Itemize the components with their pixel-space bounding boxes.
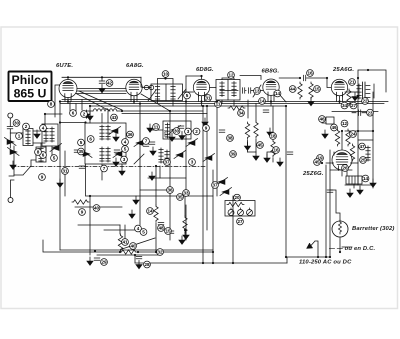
ground g10 — [147, 124, 153, 132]
wire x330 — [329, 150, 331, 257]
wire right h140 — [358, 139, 373, 141]
converter coil box L3 — [85, 123, 126, 164]
capacitor C5 — [114, 150, 120, 152]
node 9 callout — [39, 174, 46, 181]
junction j36 — [202, 262, 204, 264]
junction j3 — [59, 100, 61, 102]
node 30 callout — [13, 120, 20, 127]
node 27 callout — [350, 102, 357, 109]
wire y255 step — [134, 255, 136, 263]
wire diag down — [122, 238, 155, 249]
junction j7 — [200, 100, 202, 102]
wire osc bus y111b — [117, 110, 203, 112]
node 36 callout — [127, 131, 134, 138]
svg-text:31: 31 — [62, 169, 68, 174]
node 38 callout — [227, 135, 234, 142]
svg-text:4: 4 — [42, 126, 45, 131]
wire osc bus y113 — [122, 113, 207, 115]
svg-text:15: 15 — [165, 229, 171, 234]
wire bottom bus y263 — [135, 262, 287, 264]
svg-text:39: 39 — [230, 152, 236, 157]
node 41 callout — [122, 239, 129, 246]
wire U4 pins — [268, 95, 274, 106]
node 42 callout — [106, 80, 113, 87]
wire x207 — [206, 106, 208, 230]
trimmer arrow F5 — [203, 154, 215, 162]
node 14 callout — [362, 175, 369, 182]
ground g3 — [87, 112, 93, 120]
ground g27 — [129, 210, 135, 218]
node 9 callout — [79, 209, 86, 216]
node 14 callout — [274, 90, 281, 97]
ground g5 — [113, 133, 119, 141]
capacitor C7 — [136, 257, 142, 259]
svg-text:32: 32 — [157, 250, 163, 255]
ground g23 — [370, 179, 376, 187]
ground g1 — [99, 85, 105, 93]
mains plug arrow — [307, 243, 313, 249]
resistor R2 — [309, 82, 313, 99]
svg-text:3: 3 — [191, 160, 194, 165]
svg-text:6U7E.: 6U7E. — [56, 63, 73, 69]
wire ot secondary — [373, 84, 375, 98]
wire x186 — [185, 76, 187, 196]
wire antenna drop — [9, 118, 11, 139]
junction j32 — [285, 105, 287, 107]
wire x358 — [357, 78, 359, 185]
svg-text:16: 16 — [273, 148, 279, 153]
node 21 callout — [349, 79, 356, 86]
svg-text:18: 18 — [270, 134, 276, 139]
node 39 callout — [230, 151, 237, 158]
node 12 callout — [341, 120, 348, 127]
wire u4 res bottoms — [248, 139, 274, 162]
svg-text:26: 26 — [342, 166, 348, 171]
svg-text:5: 5 — [186, 93, 189, 98]
Philco 865U logo box — [9, 72, 52, 102]
svg-text:33: 33 — [183, 191, 189, 196]
svg-text:14: 14 — [259, 99, 265, 104]
wire diag1 — [76, 94, 110, 112]
junction j23 — [317, 256, 319, 258]
HT cluster box — [326, 117, 334, 124]
tube U2 6A8G — [126, 63, 144, 96]
svg-text:5: 5 — [53, 156, 56, 161]
node 5 callout — [184, 92, 191, 99]
trimmer arrow F7 — [220, 188, 232, 196]
ground g4 — [34, 130, 40, 138]
node 20 callout — [234, 194, 241, 201]
ground g13 — [183, 231, 189, 239]
node 10 callout — [162, 71, 169, 78]
wire mains plug — [311, 241, 318, 257]
barretter (302) — [332, 220, 395, 237]
band switch arrow FR2 — [8, 148, 20, 156]
svg-text:35: 35 — [177, 195, 183, 200]
wire T2 topcap drop — [141, 77, 143, 87]
junction j24 — [59, 121, 61, 123]
wire x203 — [202, 106, 204, 263]
wire x185b — [184, 232, 186, 240]
junction j13 — [202, 105, 204, 107]
wire mid h252 — [43, 240, 120, 252]
wire IF1 to T3 — [183, 91, 194, 93]
node 37 callout — [164, 159, 171, 166]
node 16 callout — [273, 147, 280, 154]
node 31 callout — [62, 168, 69, 175]
wire IF2 tops — [222, 78, 234, 80]
svg-text:27: 27 — [237, 219, 243, 224]
svg-text:45: 45 — [314, 160, 320, 165]
wire r34 down — [333, 152, 335, 155]
wire x120 drop — [120, 225, 125, 240]
osc coil L5 — [159, 148, 169, 165]
svg-text:2: 2 — [25, 124, 28, 129]
band switch arrow FR1 — [5, 138, 17, 146]
node 6 callout — [87, 136, 94, 143]
ground g8 — [57, 179, 63, 187]
wire h150 mid — [248, 151, 257, 153]
svg-text:28: 28 — [144, 262, 150, 267]
wire x170 — [169, 111, 171, 240]
svg-text:25: 25 — [360, 158, 366, 163]
node 46 callout — [319, 116, 326, 123]
svg-text:31: 31 — [205, 96, 211, 101]
switch S1 — [14, 166, 31, 175]
node 2 callout — [81, 111, 88, 118]
junction j10 — [338, 100, 340, 102]
resistor R16 — [120, 250, 137, 254]
capacitor C4 — [359, 110, 361, 116]
junction j38 — [232, 262, 234, 264]
node 31 callout — [205, 95, 212, 102]
wire bottom bus1 — [60, 249, 213, 251]
ground g16 — [264, 154, 270, 162]
wire T4 cap to tube — [251, 90, 263, 92]
node 6 callout — [70, 110, 77, 117]
resistor R4 — [254, 121, 258, 138]
node 26 callout — [342, 165, 349, 172]
junction j31 — [84, 121, 86, 123]
node 15 callout — [314, 86, 321, 93]
wire bus y99 — [62, 99, 150, 101]
svg-text:7: 7 — [103, 166, 106, 171]
wire u6 right lead — [351, 162, 359, 164]
node 3 callout — [185, 128, 192, 135]
node 40 callout — [93, 205, 100, 212]
wire top right loop — [358, 70, 386, 92]
junction j26 — [155, 165, 157, 167]
node 4 callout — [122, 139, 129, 146]
trimmer arrow F4 — [174, 151, 186, 159]
resistor R11 — [335, 129, 339, 146]
tube U1 6U7E — [56, 63, 77, 98]
svg-text:12: 12 — [228, 73, 234, 78]
junction j35 — [329, 256, 331, 258]
wire coil taps — [33, 131, 45, 143]
svg-text:48: 48 — [158, 226, 164, 231]
node 5 callout — [122, 146, 129, 153]
node 4 callout — [135, 225, 142, 232]
wire ant to coil — [10, 132, 23, 134]
svg-text:47: 47 — [359, 144, 365, 149]
wire mid h196 — [86, 195, 213, 197]
wire x140 — [139, 104, 141, 226]
svg-text:23: 23 — [367, 110, 373, 115]
resistor R7 — [346, 129, 350, 146]
wire avc c — [76, 93, 126, 95]
wire IF1 tops — [158, 79, 174, 85]
capacitor C3 — [304, 75, 306, 81]
junction j40 — [137, 251, 139, 253]
wire x185a — [184, 196, 186, 216]
wire x156b — [155, 223, 157, 252]
node 3 callout — [121, 156, 128, 163]
capacitor C12 — [158, 223, 164, 225]
node 5 callout — [51, 155, 58, 162]
wire earth lead — [11, 180, 15, 198]
svg-text:6A8G.: 6A8G. — [126, 63, 144, 69]
ground g6 — [113, 158, 119, 166]
svg-text:3: 3 — [123, 157, 126, 162]
junction j41 — [155, 251, 157, 253]
wire U3 pins — [199, 96, 205, 107]
wire x156 — [155, 166, 157, 205]
wire T1 grid stub — [67, 77, 69, 79]
svg-text:9: 9 — [205, 126, 208, 131]
svg-text:8: 8 — [37, 150, 40, 155]
node 7 callout — [101, 165, 108, 172]
wire right h112 — [352, 112, 367, 114]
wire rf box drops — [46, 146, 52, 156]
svg-text:22: 22 — [362, 99, 368, 104]
svg-text:27: 27 — [351, 103, 357, 108]
tube U5 25A6G — [331, 67, 354, 96]
wire u5 to x358 — [345, 91, 358, 93]
svg-text:42: 42 — [107, 81, 113, 86]
node 45 callout — [257, 142, 264, 149]
wire x160 — [159, 166, 161, 178]
volume control block — [225, 201, 255, 217]
wire h160 mid — [267, 152, 273, 158]
resistor R12 — [347, 89, 351, 106]
junction j25 — [89, 195, 91, 197]
node 36 callout — [167, 187, 174, 194]
node 33 callout — [183, 190, 190, 197]
node 9 callout — [203, 125, 210, 132]
node 45 callout — [314, 159, 321, 166]
svg-text:25A6G.: 25A6G. — [332, 67, 354, 73]
wire ot terminals — [366, 86, 370, 98]
ground g26 — [136, 261, 142, 269]
ground g14 — [245, 142, 251, 150]
svg-text:25Z6G.: 25Z6G. — [302, 171, 324, 177]
resistor R13 — [72, 200, 89, 204]
wire grid rail y77 — [62, 76, 141, 78]
junction j34 — [325, 256, 327, 258]
resistor R15 — [228, 106, 245, 110]
junction j18 — [372, 130, 374, 132]
resistor R6 — [118, 234, 122, 251]
trimmer arrow F1 — [50, 144, 62, 152]
node 19 callout — [317, 155, 324, 162]
svg-text:46: 46 — [319, 117, 325, 122]
wire mains bus right — [287, 257, 330, 263]
wire x213 — [212, 170, 214, 263]
switch slash mid — [134, 154, 144, 164]
junction j8 — [216, 100, 218, 102]
capacitor C1 — [99, 81, 105, 83]
wire x90b — [89, 196, 91, 255]
svg-text:34: 34 — [238, 111, 244, 116]
svg-text:Philco: Philco — [12, 73, 49, 87]
junction j22 — [339, 251, 341, 253]
wire u6 bottom — [341, 171, 343, 177]
capacitor C10 — [79, 166, 85, 168]
wire bus y106 — [90, 105, 286, 107]
node 44 callout — [289, 86, 296, 93]
ground g20 — [322, 130, 328, 138]
junction j11 — [121, 110, 123, 112]
band coil L1b — [36, 147, 46, 162]
svg-text:865 U: 865 U — [14, 87, 47, 101]
trimmer flag below — [186, 139, 198, 147]
ground g19 — [308, 98, 314, 106]
wire x233 — [232, 196, 234, 263]
wire b3 small — [353, 184, 355, 188]
wire trimbox leads — [150, 130, 200, 131]
tube U3 6D8G — [193, 67, 214, 96]
svg-text:9: 9 — [81, 210, 84, 215]
node 14 callout — [147, 208, 154, 215]
capacitor C11 — [74, 150, 80, 152]
wire diag2 — [79, 91, 122, 110]
ground g12 — [133, 196, 139, 204]
node 28 callout — [144, 261, 151, 268]
wire u4 area3 — [272, 106, 274, 136]
node 35 callout — [78, 148, 85, 155]
junction j5 — [139, 102, 141, 104]
svg-text:15: 15 — [314, 87, 320, 92]
node 8 callout — [35, 149, 42, 156]
junction j2 — [101, 76, 103, 78]
node 11 callout — [153, 124, 160, 131]
node 16 callout — [307, 70, 314, 77]
node 32 callout — [157, 249, 164, 256]
ground g32 — [179, 132, 185, 140]
svg-text:6D8G.: 6D8G. — [196, 67, 214, 73]
svg-text:43: 43 — [111, 115, 117, 120]
junction j48 — [164, 77, 166, 79]
resistor R9 — [154, 205, 158, 222]
svg-text:5: 5 — [124, 147, 127, 152]
wire U1 pins — [65, 97, 71, 104]
svg-text:14: 14 — [147, 209, 153, 214]
svg-text:1: 1 — [18, 134, 21, 139]
node 25 callout — [360, 157, 367, 164]
svg-text:10: 10 — [163, 72, 169, 77]
wire b2 small — [346, 170, 348, 176]
svg-text:12: 12 — [342, 121, 348, 126]
node 2 callout — [23, 123, 30, 130]
tuning gang dash-dot link — [12, 166, 207, 168]
wire T4 grid rail — [240, 76, 261, 80]
antenna coil L1 — [23, 129, 33, 146]
wire IF2 pins — [222, 100, 234, 106]
junction j37 — [212, 251, 214, 253]
node 7 callout — [143, 138, 150, 145]
wire box bottom drops — [102, 164, 122, 180]
junction j28 — [134, 254, 136, 256]
svg-text:37: 37 — [212, 183, 218, 188]
wire avc a — [77, 88, 126, 90]
junction j12 — [185, 100, 187, 102]
svg-text:30: 30 — [174, 129, 180, 134]
wire box drops — [102, 111, 108, 123]
ground g29 — [179, 236, 185, 244]
svg-text:4: 4 — [137, 226, 140, 231]
earth terminal — [8, 198, 13, 203]
svg-text:Barretter (302): Barretter (302) — [352, 226, 395, 232]
svg-text:45: 45 — [257, 143, 263, 148]
wire h178 — [148, 177, 186, 179]
svg-text:6: 6 — [89, 137, 92, 142]
node 47 callout — [359, 143, 366, 150]
ground g17 — [277, 158, 283, 166]
wire sw up — [31, 160, 36, 166]
node 29 callout — [101, 259, 108, 266]
svg-text:9: 9 — [41, 175, 44, 180]
wire T1 left drop — [55, 85, 60, 117]
svg-text:16: 16 — [307, 71, 313, 76]
filter tap block — [346, 176, 362, 184]
node 49 callout — [331, 124, 338, 131]
wire right bus y111 — [332, 111, 378, 113]
ground g18 — [202, 118, 208, 126]
node 11 callout — [215, 101, 222, 108]
junction j27 — [184, 229, 186, 231]
node 48 callout — [158, 225, 165, 232]
wire U5 pins — [337, 95, 343, 103]
ground g15 — [253, 152, 259, 160]
top cap clips U2 — [144, 85, 148, 89]
resistor R5 — [271, 140, 275, 157]
node 34 callout — [341, 102, 348, 109]
junction j45 — [299, 77, 301, 79]
svg-text:40: 40 — [94, 206, 100, 211]
node 12 callout — [228, 72, 235, 79]
junction j42 — [133, 100, 135, 102]
capacitor C17 — [243, 88, 245, 94]
capacitor C19 — [263, 110, 269, 112]
wire right h131 — [345, 130, 373, 132]
antenna terminal — [8, 113, 13, 118]
wire bus y101 — [60, 101, 388, 103]
wire h252b — [138, 251, 213, 253]
wire barretter feed — [330, 190, 340, 221]
svg-text:40: 40 — [130, 244, 136, 249]
junction j9 — [270, 100, 272, 102]
junction j4 — [89, 105, 91, 107]
svg-text:14: 14 — [275, 91, 281, 96]
resistor R14 — [227, 202, 244, 206]
junction j29 — [94, 250, 96, 252]
svg-text:38: 38 — [227, 136, 233, 141]
junction j47 — [212, 262, 214, 264]
svg-text:21: 21 — [349, 80, 355, 85]
wire mid h225 — [78, 224, 120, 226]
svg-text:13: 13 — [254, 89, 260, 94]
